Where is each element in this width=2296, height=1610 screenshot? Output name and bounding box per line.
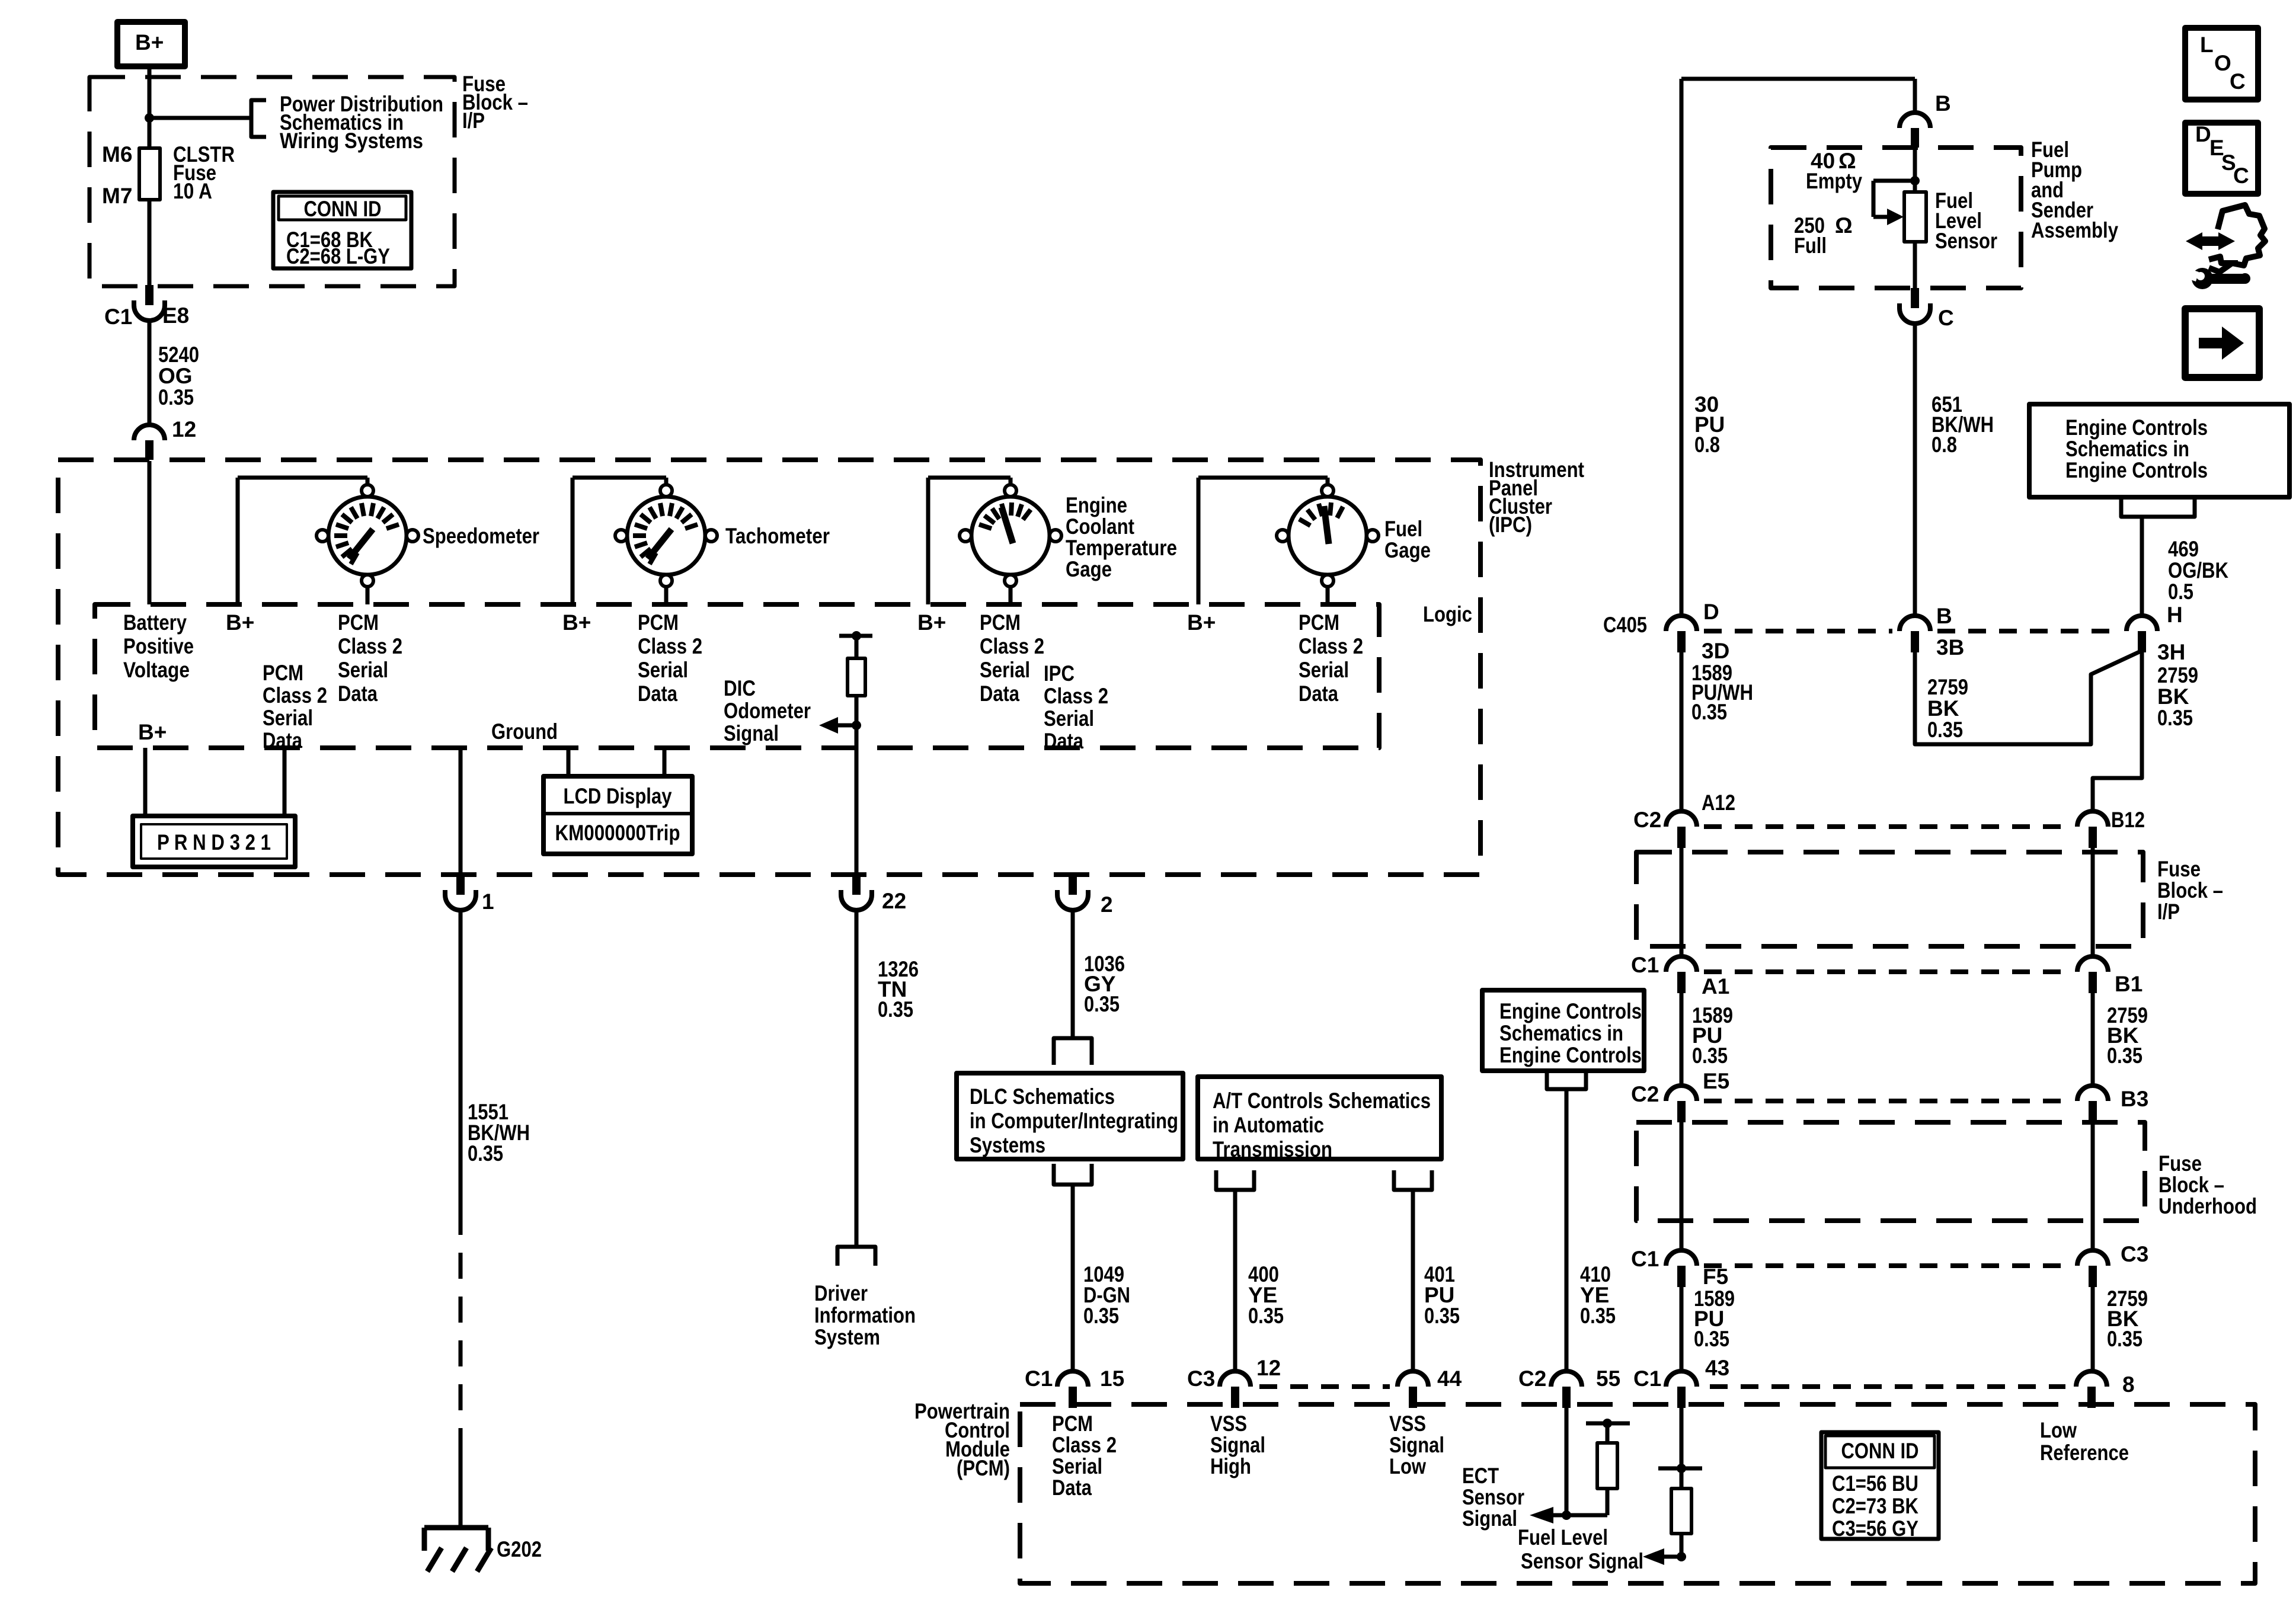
- svg-text:BK: BK: [2157, 684, 2189, 709]
- svg-text:PCM: PCM: [338, 610, 379, 635]
- svg-text:B3: B3: [2121, 1087, 2148, 1111]
- svg-text:PCM: PCM: [980, 610, 1021, 635]
- svg-text:0.35: 0.35: [1424, 1304, 1460, 1328]
- svg-text:A/T Controls Schematics: A/T Controls Schematics: [1213, 1089, 1431, 1113]
- svg-text:0.5: 0.5: [2168, 580, 2193, 604]
- svg-text:Transmission: Transmission: [1213, 1137, 1332, 1161]
- svg-text:Fuse: Fuse: [2157, 857, 2201, 881]
- svg-text:A1: A1: [1702, 974, 1729, 998]
- svg-text:B+: B+: [917, 610, 946, 635]
- svg-text:M7: M7: [102, 184, 132, 208]
- svg-text:Data: Data: [1052, 1475, 1092, 1500]
- svg-text:Serial: Serial: [638, 658, 688, 682]
- svg-text:D: D: [2195, 122, 2211, 146]
- svg-text:12: 12: [172, 417, 196, 441]
- svg-text:8: 8: [2122, 1372, 2135, 1397]
- svg-text:C1: C1: [1025, 1366, 1053, 1391]
- svg-text:3D: 3D: [1702, 639, 1729, 663]
- svg-text:0.8: 0.8: [1932, 433, 1957, 457]
- svg-text:Serial: Serial: [338, 658, 388, 682]
- svg-text:CONN ID: CONN ID: [304, 197, 382, 221]
- svg-text:0.35: 0.35: [878, 997, 913, 1022]
- svg-text:Temperature: Temperature: [1066, 536, 1177, 560]
- svg-text:C2: C2: [1518, 1366, 1546, 1391]
- svg-text:Full: Full: [1794, 233, 1827, 258]
- svg-text:Schematics in: Schematics in: [2065, 437, 2189, 461]
- svg-text:P R N D 3 2 1: P R N D 3 2 1: [157, 830, 271, 854]
- svg-text:I/P: I/P: [2157, 900, 2180, 924]
- svg-text:C: C: [2230, 69, 2246, 94]
- svg-text:22: 22: [882, 889, 906, 913]
- svg-text:F5: F5: [1703, 1265, 1728, 1289]
- svg-text:Data: Data: [638, 681, 677, 706]
- svg-text:0.35: 0.35: [158, 385, 194, 409]
- svg-text:CONN ID: CONN ID: [1841, 1439, 1919, 1463]
- svg-text:C3: C3: [2121, 1242, 2148, 1266]
- svg-text:Engine Controls: Engine Controls: [2065, 458, 2208, 482]
- svg-text:C: C: [1938, 306, 1954, 330]
- svg-text:Block –: Block –: [2159, 1173, 2224, 1197]
- svg-text:Signal: Signal: [1210, 1433, 1265, 1457]
- svg-text:OG: OG: [158, 364, 193, 388]
- svg-text:1: 1: [482, 889, 494, 914]
- svg-text:Low: Low: [2040, 1418, 2077, 1442]
- svg-text:C1: C1: [1633, 1366, 1661, 1391]
- svg-text:0.35: 0.35: [1691, 700, 1727, 724]
- svg-text:in Automatic: in Automatic: [1213, 1113, 1324, 1137]
- svg-text:Sensor: Sensor: [1462, 1485, 1524, 1509]
- svg-text:B1: B1: [2115, 972, 2142, 996]
- svg-text:Schematics in: Schematics in: [1499, 1021, 1623, 1045]
- svg-text:C405: C405: [1603, 613, 1647, 637]
- svg-text:0.35: 0.35: [1692, 1044, 1728, 1068]
- svg-text:O: O: [2214, 51, 2231, 75]
- svg-text:High: High: [1210, 1454, 1251, 1478]
- svg-text:Ground: Ground: [491, 719, 558, 744]
- svg-text:Block –: Block –: [2157, 878, 2223, 902]
- svg-text:E8: E8: [162, 303, 189, 328]
- svg-text:Engine Controls: Engine Controls: [1499, 999, 1642, 1023]
- svg-text:Empty: Empty: [1806, 169, 1862, 193]
- svg-text:G202: G202: [497, 1537, 542, 1561]
- svg-text:PCM: PCM: [1052, 1411, 1093, 1436]
- svg-text:M6: M6: [102, 142, 132, 167]
- svg-text:0.35: 0.35: [2107, 1327, 2142, 1351]
- svg-text:Class 2: Class 2: [263, 683, 327, 708]
- svg-text:PCM: PCM: [638, 610, 679, 635]
- svg-text:12: 12: [1256, 1356, 1281, 1380]
- svg-text:0.35: 0.35: [1084, 992, 1120, 1016]
- svg-text:Serial: Serial: [1299, 658, 1349, 682]
- svg-text:469: 469: [2168, 537, 2199, 561]
- svg-text:Odometer: Odometer: [724, 699, 811, 723]
- svg-text:H: H: [2167, 603, 2183, 627]
- svg-text:Speedometer: Speedometer: [423, 524, 539, 548]
- svg-text:3B: 3B: [1936, 635, 1964, 660]
- svg-text:A12: A12: [1702, 790, 1735, 815]
- svg-text:Data: Data: [1044, 729, 1083, 753]
- svg-text:Ω: Ω: [1835, 213, 1853, 238]
- svg-text:DLC Schematics: DLC Schematics: [970, 1084, 1115, 1109]
- svg-text:0.35: 0.35: [1694, 1327, 1729, 1351]
- svg-text:Assembly: Assembly: [2031, 218, 2118, 242]
- svg-text:Engine Controls: Engine Controls: [2065, 415, 2208, 440]
- svg-text:0.35: 0.35: [1248, 1304, 1284, 1328]
- svg-text:Driver: Driver: [814, 1281, 868, 1305]
- svg-text:Data: Data: [1299, 681, 1338, 706]
- svg-text:Coolant: Coolant: [1066, 514, 1134, 539]
- svg-text:Sensor Signal: Sensor Signal: [1521, 1549, 1643, 1573]
- svg-text:43: 43: [1705, 1356, 1729, 1380]
- svg-text:Systems: Systems: [970, 1133, 1045, 1157]
- svg-text:Data: Data: [338, 681, 378, 706]
- svg-text:DIC: DIC: [724, 676, 756, 700]
- svg-text:Signal: Signal: [724, 721, 779, 745]
- svg-text:C2=68 L-GY: C2=68 L-GY: [286, 244, 390, 268]
- svg-text:PCM: PCM: [263, 661, 303, 685]
- svg-text:System: System: [814, 1325, 880, 1349]
- svg-text:10 A: 10 A: [173, 179, 212, 203]
- svg-text:2759: 2759: [2157, 663, 2198, 687]
- svg-text:0.35: 0.35: [1580, 1304, 1616, 1328]
- svg-text:Serial: Serial: [263, 706, 313, 730]
- svg-text:Signal: Signal: [1389, 1433, 1444, 1457]
- svg-text:C1: C1: [1631, 953, 1659, 977]
- svg-text:5240: 5240: [158, 343, 199, 367]
- svg-text:C: C: [2233, 164, 2249, 188]
- svg-text:0.8: 0.8: [1694, 433, 1720, 457]
- svg-text:B12: B12: [2111, 808, 2145, 832]
- svg-text:B+: B+: [226, 610, 254, 635]
- svg-text:0.35: 0.35: [468, 1141, 503, 1166]
- svg-text:I/P: I/P: [462, 108, 485, 133]
- svg-text:C3: C3: [1187, 1366, 1215, 1391]
- svg-text:Gage: Gage: [1066, 557, 1112, 581]
- svg-text:3H: 3H: [2157, 640, 2185, 664]
- svg-text:ECT: ECT: [1462, 1464, 1499, 1488]
- svg-text:VSS: VSS: [1210, 1411, 1247, 1436]
- svg-text:0.35: 0.35: [1927, 718, 1963, 742]
- svg-text:Fuel Level: Fuel Level: [1518, 1525, 1608, 1550]
- svg-text:Class 2: Class 2: [638, 634, 702, 658]
- svg-text:B: B: [1936, 604, 1952, 628]
- svg-text:Battery: Battery: [123, 610, 187, 635]
- svg-text:Serial: Serial: [980, 658, 1030, 682]
- svg-text:Data: Data: [980, 681, 1019, 706]
- svg-text:C2=73 BK: C2=73 BK: [1832, 1494, 1918, 1518]
- svg-text:C3=56 GY: C3=56 GY: [1832, 1516, 1918, 1541]
- svg-text:2759: 2759: [1927, 675, 1968, 699]
- svg-text:Class 2: Class 2: [1052, 1433, 1117, 1457]
- svg-text:Class 2: Class 2: [338, 634, 402, 658]
- svg-text:15: 15: [1100, 1366, 1124, 1391]
- svg-text:Serial: Serial: [1044, 706, 1094, 731]
- svg-text:OG/BK: OG/BK: [2168, 558, 2228, 582]
- svg-text:C1: C1: [1631, 1247, 1659, 1271]
- svg-text:Information: Information: [814, 1303, 916, 1327]
- svg-text:Signal: Signal: [1462, 1506, 1517, 1531]
- svg-text:Positive: Positive: [123, 634, 194, 658]
- svg-text:C1=56 BU: C1=56 BU: [1832, 1471, 1918, 1496]
- svg-text:C2: C2: [1633, 808, 1661, 832]
- svg-text:IPC: IPC: [1044, 661, 1075, 686]
- svg-text:0.35: 0.35: [2107, 1044, 2142, 1068]
- svg-text:0.35: 0.35: [1083, 1304, 1119, 1328]
- svg-text:C1: C1: [104, 305, 132, 329]
- svg-text:(IPC): (IPC): [1489, 513, 1532, 537]
- svg-text:2: 2: [1101, 892, 1113, 917]
- svg-text:BK: BK: [1927, 696, 1959, 721]
- svg-text:Serial: Serial: [1052, 1454, 1102, 1478]
- svg-text:Low: Low: [1389, 1454, 1426, 1478]
- svg-text:44: 44: [1437, 1366, 1462, 1391]
- svg-text:Reference: Reference: [2040, 1441, 2129, 1465]
- svg-text:Logic: Logic: [1423, 602, 1472, 626]
- svg-text:B+: B+: [138, 720, 167, 744]
- svg-text:L: L: [2200, 33, 2214, 57]
- svg-text:0.35: 0.35: [2157, 706, 2193, 730]
- svg-text:D: D: [1703, 600, 1719, 624]
- svg-text:KM000000Trip: KM000000Trip: [555, 821, 680, 845]
- svg-text:in Computer/Integrating: in Computer/Integrating: [970, 1109, 1178, 1133]
- svg-text:(PCM): (PCM): [957, 1456, 1010, 1480]
- svg-text:Class 2: Class 2: [1299, 634, 1363, 658]
- svg-text:Fuel: Fuel: [1384, 517, 1422, 541]
- svg-text:55: 55: [1596, 1366, 1620, 1391]
- svg-text:Engine: Engine: [1066, 493, 1127, 517]
- svg-text:B+: B+: [562, 610, 591, 635]
- svg-text:Class 2: Class 2: [1044, 684, 1108, 708]
- svg-text:B: B: [1935, 91, 1951, 116]
- svg-text:Tachometer: Tachometer: [725, 524, 830, 548]
- svg-text:E5: E5: [1703, 1069, 1729, 1093]
- svg-text:B+: B+: [1187, 610, 1216, 635]
- svg-text:Engine Controls: Engine Controls: [1499, 1043, 1642, 1067]
- svg-text:Voltage: Voltage: [123, 658, 190, 682]
- svg-text:C2: C2: [1631, 1082, 1659, 1106]
- svg-text:Class 2: Class 2: [980, 634, 1044, 658]
- svg-text:Fuse: Fuse: [2159, 1151, 2202, 1176]
- svg-text:PCM: PCM: [1299, 610, 1339, 635]
- svg-text:VSS: VSS: [1389, 1411, 1426, 1436]
- svg-text:Wiring Systems: Wiring Systems: [280, 129, 423, 153]
- svg-text:Underhood: Underhood: [2159, 1194, 2257, 1218]
- svg-text:LCD Display: LCD Display: [564, 784, 672, 808]
- svg-text:Gage: Gage: [1384, 538, 1431, 562]
- svg-text:B+: B+: [135, 30, 164, 55]
- svg-text:Sensor: Sensor: [1935, 229, 1997, 253]
